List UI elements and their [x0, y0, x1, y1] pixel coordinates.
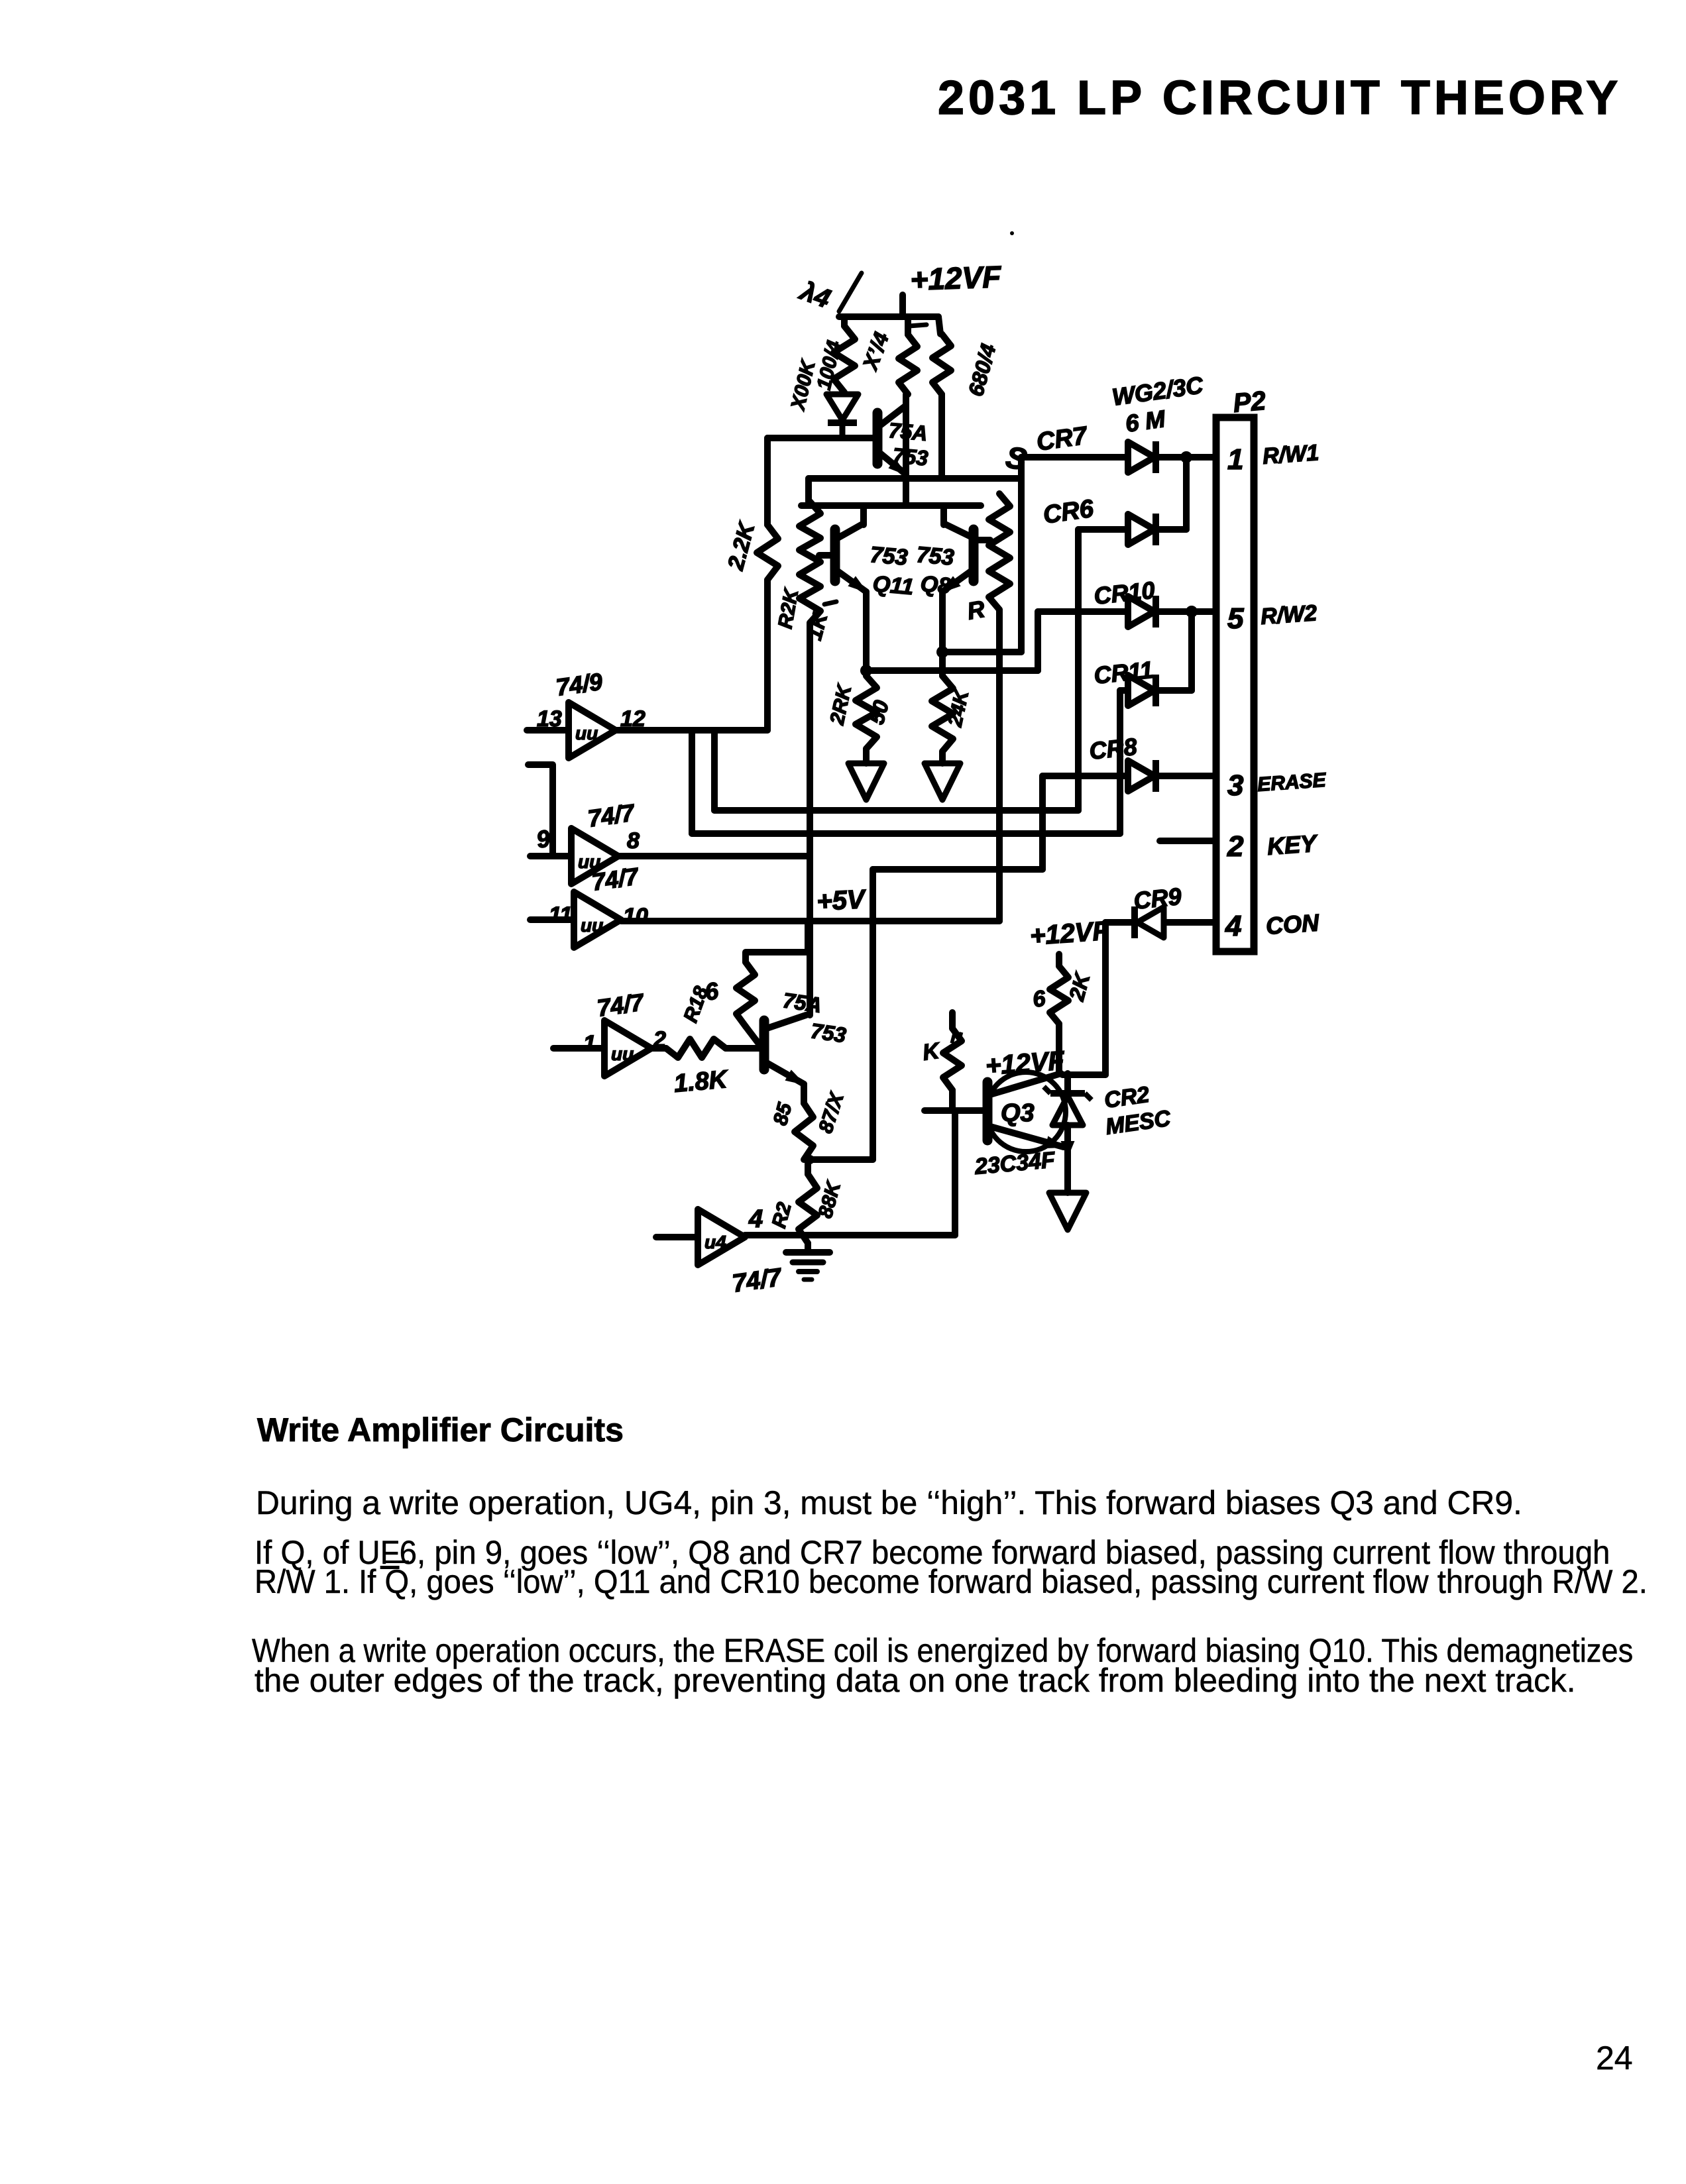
paragraph 3 line 1 — [252, 1631, 1633, 1670]
transistor Q11 emitter arrow — [849, 577, 866, 592]
diode CR7 — [1128, 442, 1154, 472]
wire R2 to gnd — [805, 1243, 811, 1252]
svg-text:5: 5 — [1227, 602, 1244, 635]
svg-text:74/7: 74/7 — [586, 798, 637, 832]
paragraph 2 line 1 — [254, 1533, 1610, 1572]
svg-text:75A: 75A — [781, 988, 823, 1017]
label dash R1 — [824, 602, 836, 604]
wire UF6a input — [527, 727, 569, 734]
wire UG4b out — [745, 1232, 955, 1238]
svg-text:753: 753 — [915, 542, 955, 571]
wire bus drop a — [711, 730, 718, 810]
diode CR11 — [1128, 675, 1154, 706]
svg-text:KEY: KEY — [1266, 830, 1320, 860]
paragraph 2 line 2 — [254, 1562, 1648, 1601]
wire Q8 emitter down — [939, 592, 946, 652]
svg-text:10: 10 — [623, 904, 648, 929]
wire +12VF stub — [899, 295, 906, 317]
wire CR8 vertical — [1039, 776, 1046, 869]
gate UF6a triangle — [569, 702, 616, 758]
wire CR8 to P2 pin3 — [1157, 773, 1216, 779]
svg-text:u4: u4 — [704, 1232, 726, 1252]
wire Q11 base stub — [819, 552, 832, 559]
diode CR9 — [1137, 907, 1164, 938]
svg-text:uu: uu — [611, 1044, 634, 1064]
resistor R11 (1K) riser — [949, 1012, 956, 1028]
wire CR7 to P2 pin1 — [1157, 454, 1216, 461]
wire zener arrowhead — [1062, 1142, 1074, 1156]
wire R17 to base — [746, 1026, 758, 1043]
wire zener down — [1064, 1125, 1071, 1193]
svg-text:2RK: 2RK — [826, 682, 856, 728]
svg-text:74/7: 74/7 — [730, 1264, 784, 1298]
node dot Q11 emitter — [860, 665, 872, 677]
gate UG4b triangle — [698, 1209, 745, 1265]
resistor R1 (1K) — [799, 502, 820, 623]
wire riser to R14 — [905, 317, 911, 335]
wire +12VF drop — [1056, 954, 1062, 966]
node dot pin5 — [1186, 606, 1198, 618]
transistor Q10 collector — [767, 1015, 806, 1028]
svg-text:CR6: CR6 — [1041, 495, 1096, 529]
diode CR12 zener — [1050, 1090, 1085, 1097]
resistor R15 (680) — [932, 334, 951, 394]
wire CR6 vertical — [1075, 529, 1082, 810]
resistor R2 — [799, 1174, 817, 1243]
wire CR9 drop — [1102, 922, 1109, 1075]
ground under R7 — [925, 763, 960, 800]
wire erase to N1 — [812, 1156, 873, 1163]
paragraph 3 line 2 — [254, 1661, 1575, 1700]
svg-text:2.2K: 2.2K — [723, 519, 760, 574]
svg-text:=: = — [941, 1028, 971, 1048]
wire erase drop — [870, 869, 876, 1160]
page number — [1596, 2039, 1633, 2077]
svg-text:+12VF: +12VF — [1029, 916, 1111, 951]
transistor Q8 emitter — [942, 571, 971, 592]
svg-text:+12VF: +12VF — [910, 259, 1003, 297]
resistor R8 — [795, 1103, 813, 1160]
svg-text:λ4: λ4 — [795, 276, 834, 313]
svg-text:Q8: Q8 — [919, 571, 952, 599]
wire base res loop — [746, 922, 808, 962]
svg-text:6 M: 6 M — [1123, 405, 1167, 437]
wire CR11 feed — [1120, 687, 1128, 694]
wire R15 to H4 — [938, 394, 945, 478]
wire CR11 vertical — [1117, 690, 1123, 834]
resistor R6 — [856, 676, 877, 749]
svg-text:11: 11 — [549, 902, 572, 928]
svg-text:23C34F: 23C34F — [973, 1147, 1056, 1179]
wire CR9 bar link — [1105, 919, 1135, 926]
svg-text:753: 753 — [809, 1018, 848, 1047]
svg-text:87/X: 87/X — [815, 1089, 848, 1136]
svg-text:85: 85 — [769, 1100, 797, 1128]
resistor R7 — [932, 676, 953, 751]
svg-text:R2K: R2K — [774, 586, 803, 630]
svg-text:50: 50 — [864, 698, 893, 727]
svg-text:4: 4 — [1225, 910, 1241, 942]
svg-text:WG2/3C: WG2/3C — [1110, 371, 1205, 411]
resistor R9 (2K) — [1050, 966, 1068, 1024]
wire Q10 collector bus — [807, 856, 813, 1015]
diode CR10 — [1128, 596, 1154, 627]
svg-text:1: 1 — [583, 1031, 596, 1056]
wire R9 to Q3 node — [1056, 1024, 1062, 1073]
wire CR11 riser to pin5 — [1188, 612, 1195, 690]
wire node down to R7 — [939, 652, 946, 676]
wire CR10 riser — [1035, 612, 1041, 671]
transistor Q11 collector — [838, 523, 864, 538]
ground under R6 — [848, 763, 884, 800]
wire UG4b input — [656, 1234, 698, 1240]
svg-text:uu: uu — [575, 723, 598, 743]
gate UF6c triangle — [574, 892, 621, 948]
resistor R17 — [736, 962, 755, 1026]
transistor Q8 bar — [969, 529, 979, 581]
wire H4 rail — [809, 475, 1021, 482]
wire Q10 emitter down — [801, 1084, 807, 1103]
wire CR11 out — [1157, 687, 1192, 694]
wire rail corner to R15 — [938, 317, 940, 334]
wire CR6 out — [1157, 526, 1186, 533]
transistor Q10 emitter arrow — [786, 1071, 804, 1084]
wire UF6b input — [530, 853, 571, 859]
svg-text:K: K — [921, 1038, 942, 1065]
diode CR6 — [1128, 514, 1154, 545]
wire bus to CR11 — [692, 830, 1120, 837]
wire CR10 link — [866, 667, 1038, 674]
transistor Q3 emitter arrow — [1046, 1137, 1064, 1148]
transistor Q3 collector — [990, 1073, 1061, 1095]
wire CR10 to P2 pin5 — [1157, 608, 1216, 615]
wire H2 corner down — [764, 438, 771, 525]
svg-text:74/9: 74/9 — [554, 668, 604, 701]
wire CR10 feed — [1038, 608, 1128, 615]
label dash between — [909, 325, 927, 326]
wire CR6 feed — [1078, 526, 1128, 533]
svg-text:R2: R2 — [768, 1200, 796, 1230]
resistor R16 (2.2K) on riser — [757, 525, 778, 580]
svg-text:CR2: CR2 — [1103, 1082, 1151, 1113]
section heading — [257, 1411, 624, 1449]
wire +5V rail — [621, 918, 999, 924]
svg-text:CR7: CR7 — [1035, 421, 1090, 456]
svg-text:4: 4 — [748, 1205, 763, 1233]
wire R5 down to +5V rail — [996, 610, 1003, 921]
svg-text:1.8K: 1.8K — [673, 1065, 730, 1098]
wire zener top — [1064, 1073, 1071, 1092]
wire UG4a input — [553, 1045, 604, 1052]
transistor Q3 circle — [986, 1072, 1066, 1152]
node dot Q8 emitter — [936, 646, 948, 658]
wire bus drop b — [689, 730, 695, 834]
svg-text:6: 6 — [1031, 986, 1048, 1012]
node dot pin1 — [1180, 451, 1192, 463]
wire Q3 node to CR9 drop — [1062, 1071, 1105, 1078]
connector P2 box — [1216, 417, 1254, 952]
node N1 — [805, 1155, 815, 1164]
resistor R11 (1K) — [943, 1028, 962, 1090]
wire R2 link — [805, 1160, 811, 1174]
svg-text:74/7: 74/7 — [595, 988, 646, 1022]
wire Q8 base stub — [976, 537, 990, 543]
transistor Q8 emitter arrow — [942, 577, 960, 592]
transistor Q11 emitter — [838, 571, 866, 592]
transistor Q9 emitter — [880, 453, 906, 474]
wire CR6 riser to pin1 — [1183, 457, 1190, 529]
wire base line H2 — [767, 435, 877, 441]
wire bus to CR6 — [714, 807, 1078, 814]
gate UF6b triangle — [571, 828, 618, 884]
ground under zener — [1049, 1193, 1086, 1230]
transistor Q8 collector — [944, 523, 971, 537]
wire UF6c input — [530, 916, 574, 923]
transistor Q10 bar — [759, 1020, 769, 1069]
transistor Q9 collector — [880, 406, 906, 425]
paragraph 1 line 1 — [256, 1484, 1522, 1522]
resistor R10 (1.8K) — [666, 1039, 726, 1058]
wire H4 left corner — [805, 478, 812, 502]
wire UG4a out — [651, 1045, 666, 1052]
svg-text:CON: CON — [1265, 908, 1321, 940]
svg-text:ERASE: ERASE — [1257, 769, 1327, 796]
wire riser to R13 — [841, 317, 848, 326]
svg-text:3: 3 — [1227, 769, 1243, 802]
wire R6 to gnd — [863, 749, 870, 763]
wire erase jog — [873, 866, 1042, 873]
wire CR7 riser — [1018, 457, 1025, 652]
wire UG4b out riser — [952, 1111, 958, 1235]
svg-text:Q3: Q3 — [1001, 1099, 1035, 1127]
wire R10 to Q10 base — [726, 1045, 763, 1052]
svg-text:P2: P2 — [1232, 386, 1267, 418]
svg-text:753: 753 — [869, 542, 909, 571]
wire Q11 collector riser — [860, 506, 867, 525]
transistor Q11 bar — [830, 529, 840, 581]
svg-text:753: 753 — [891, 443, 929, 470]
svg-text:1K: 1K — [802, 608, 832, 643]
wire Q3 base line — [925, 1107, 985, 1114]
wire UF6b out — [618, 853, 810, 859]
transistor Q3 emitter — [990, 1126, 1064, 1147]
wire H3 emitter rail — [801, 502, 981, 509]
wire R11 to base — [949, 1090, 956, 1111]
wire Q9 collector to R14 — [903, 394, 909, 506]
transistor Q9 bar — [873, 413, 883, 464]
transistor Q9 emitter arrow — [889, 460, 906, 474]
svg-text:8: 8 — [627, 828, 640, 853]
svg-text:R: R — [965, 595, 987, 625]
svg-text:R/W1: R/W1 — [1262, 440, 1320, 469]
ground bars — [786, 1249, 830, 1256]
wire riser to UF6 out — [764, 580, 771, 730]
wire Q11 emitter down — [863, 592, 870, 671]
wire node to CR7 riser — [942, 649, 1021, 655]
wire P2 pin2 stub — [1160, 838, 1216, 844]
wire UF6b input hook — [528, 765, 553, 856]
page title — [938, 71, 1622, 125]
svg-text:2: 2 — [1227, 830, 1244, 863]
scrawl top-left stroke — [839, 273, 862, 311]
svg-text:Q11: Q11 — [871, 571, 915, 600]
svg-text:X’/4: X’/4 — [858, 329, 893, 374]
speck — [1010, 231, 1014, 235]
svg-text:1: 1 — [1227, 443, 1243, 476]
wire R7 to gnd — [939, 751, 946, 763]
wire CR9 to P2 pin4 — [1165, 919, 1216, 926]
svg-text:12: 12 — [620, 706, 646, 732]
svg-text:R/W2: R/W2 — [1260, 600, 1318, 629]
wire R1 down to UF6b out — [807, 623, 813, 856]
wire UF6 out — [616, 727, 767, 734]
resistor R14 (1/4W) — [899, 335, 917, 394]
transistor Q3 bar — [983, 1082, 993, 1140]
wire top rail — [839, 313, 938, 320]
wire CR7 feed — [1021, 454, 1128, 461]
transistor Q10 emitter — [767, 1063, 804, 1084]
svg-text:680/4: 680/4 — [964, 341, 1001, 399]
svg-text:74/7: 74/7 — [590, 862, 641, 896]
svg-text:+5V: +5V — [816, 885, 868, 916]
resistor R5 — [989, 494, 1010, 610]
resistor R13 (100 1/4W) — [834, 326, 855, 392]
gate UG4a triangle — [604, 1020, 651, 1076]
diode CR8 — [1128, 761, 1154, 791]
wire Q8 collector riser — [940, 506, 947, 525]
svg-text:88K: 88K — [815, 1178, 846, 1221]
svg-text:uu: uu — [581, 915, 603, 936]
diode CR5 — [826, 394, 858, 420]
wire CR8 feed — [1042, 773, 1128, 779]
